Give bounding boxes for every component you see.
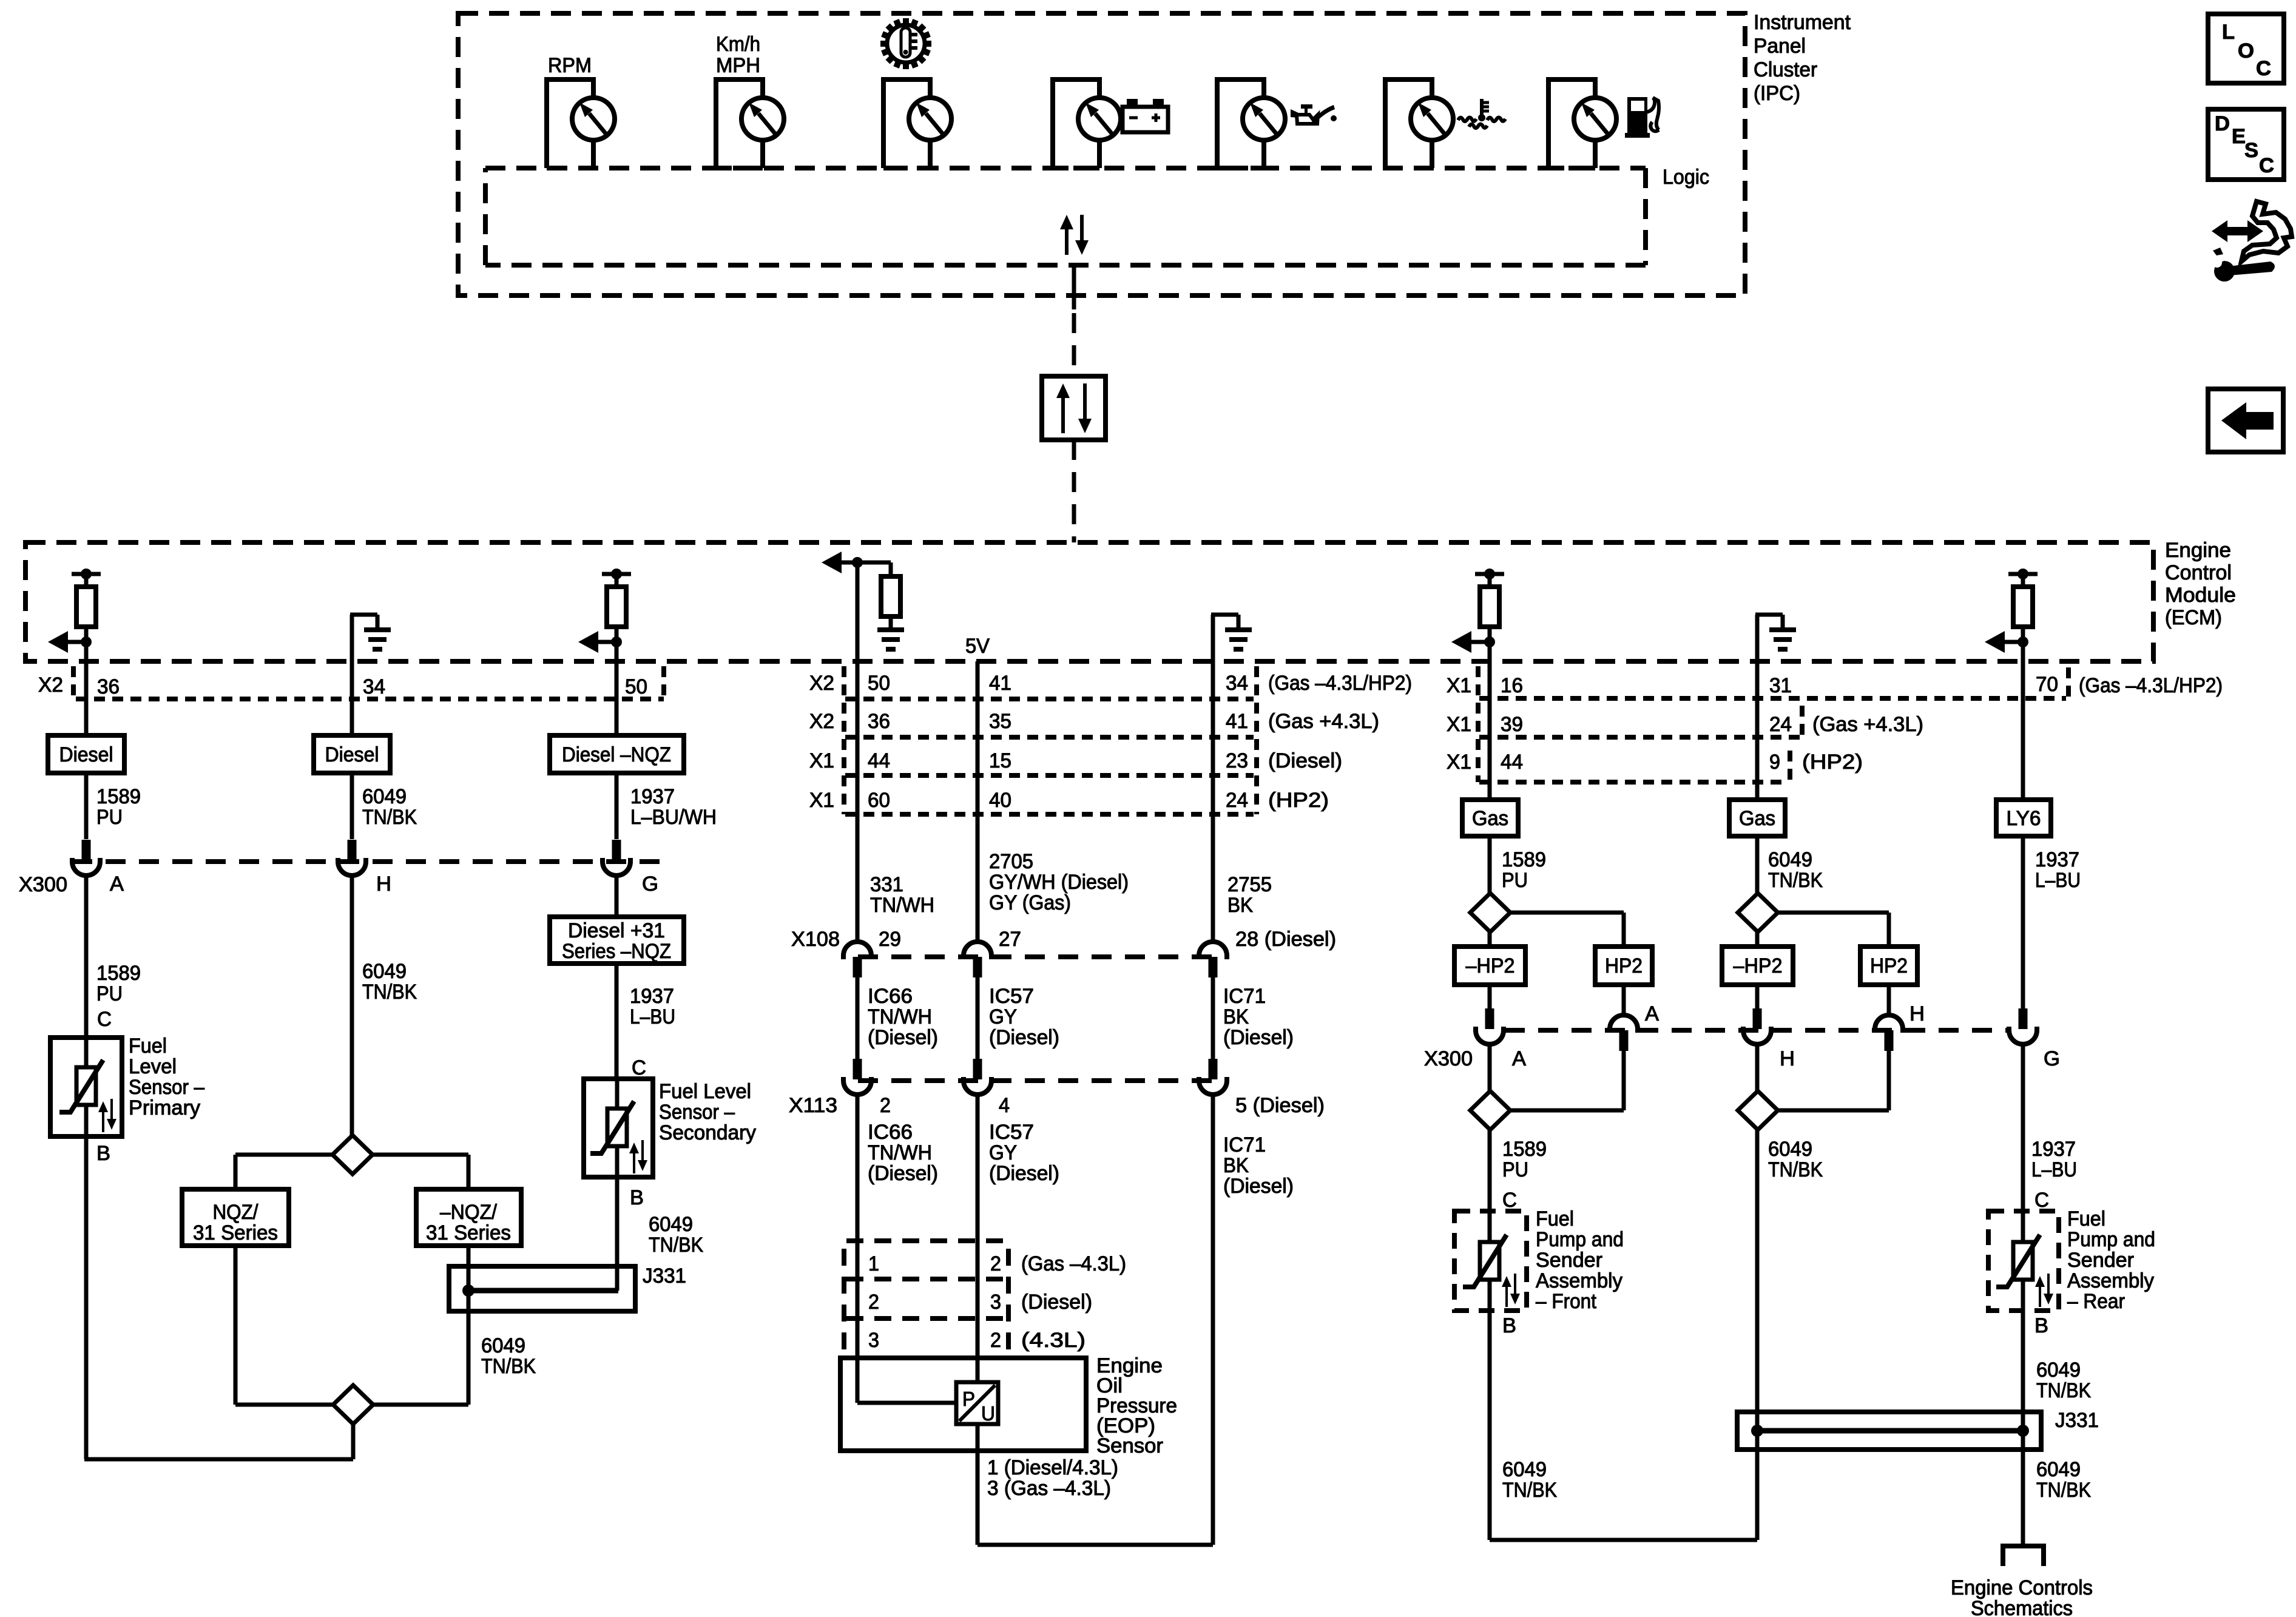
wire to NQZ/31 Series — [235, 1153, 333, 1157]
svg-text:16: 16 — [1501, 674, 1523, 697]
svg-text:6049: 6049 — [362, 785, 407, 808]
svg-text:50: 50 — [868, 672, 890, 695]
wire 1937 L-BU/WH (third column) — [615, 661, 619, 735]
svg-text:IC71: IC71 — [1223, 985, 1266, 1008]
svg-text:X2: X2 — [809, 672, 834, 695]
splice diamond HP2 merge front — [1470, 1091, 1510, 1130]
svg-text:3: 3 — [990, 1291, 1001, 1314]
wire 6049 TN/BK (right column 8) — [1755, 661, 1760, 800]
wire to HP2 option front — [1510, 911, 1624, 915]
option box HP2 front — [1595, 947, 1652, 985]
wire HP2 front below connector — [1622, 1051, 1626, 1110]
level arrows of fuel level sensor secondary — [633, 1151, 635, 1173]
wire 331 TN/WH (column 4) — [856, 661, 860, 942]
svg-text:5 (Diesel): 5 (Diesel) — [1235, 1094, 1325, 1117]
off-page connector to Engine Controls Schematics — [2003, 1546, 2044, 1566]
svg-text:23: 23 — [1226, 749, 1248, 772]
svg-text:GY (Gas): GY (Gas) — [989, 891, 1071, 914]
svg-text:Control: Control — [2165, 561, 2232, 584]
svg-text:(ECM): (ECM) — [2165, 606, 2222, 629]
connector X300 HP2 rear: socket over pin — [1875, 1015, 1903, 1033]
svg-text:X300: X300 — [1424, 1047, 1473, 1070]
svg-text:41: 41 — [989, 672, 1011, 695]
svg-text:44: 44 — [1501, 751, 1523, 774]
svg-text:36: 36 — [97, 675, 120, 698]
svg-text:Sensor –: Sensor – — [129, 1076, 204, 1099]
svg-text:1589: 1589 — [1502, 1138, 1547, 1161]
svg-text:2: 2 — [880, 1094, 891, 1117]
svg-text:Diesel +31: Diesel +31 — [568, 919, 665, 942]
wire 1937 to Diesel +31 Series -NQZ — [615, 876, 619, 917]
svg-text:40: 40 — [989, 789, 1011, 812]
svg-text:34: 34 — [1226, 672, 1248, 695]
svg-text:– Rear: – Rear — [2067, 1290, 2125, 1313]
variable resistor element of fuel level sensor primary — [76, 1067, 96, 1105]
svg-text:PU: PU — [1502, 1158, 1528, 1181]
variable resistor element of rear fuel sender — [2013, 1242, 2033, 1280]
svg-text:PU: PU — [96, 982, 123, 1005]
wire IC71 BK down right side of EOP — [1211, 1095, 1215, 1545]
svg-text:2705: 2705 — [989, 850, 1033, 873]
svg-text:1589: 1589 — [96, 785, 141, 808]
svg-text:Diesel: Diesel — [325, 743, 379, 766]
P/U pressure transducer — [956, 1382, 998, 1424]
ECM middle pin ladder X2/X1 rows — [842, 666, 846, 814]
level arrows of front fuel sender — [1505, 1284, 1508, 1307]
splice pack J331 (right) — [1737, 1412, 2041, 1450]
svg-text:H: H — [1780, 1047, 1795, 1070]
svg-text:(Diesel): (Diesel) — [989, 1162, 1059, 1185]
ground inside ECM on wire 6049 right — [1755, 615, 1760, 661]
svg-text:6049: 6049 — [362, 960, 407, 983]
connector row X300 (right) dashed line — [1505, 1028, 2008, 1033]
svg-text:X1: X1 — [809, 749, 834, 772]
svg-text:1: 1 — [868, 1252, 879, 1275]
svg-text:B: B — [96, 1142, 110, 1165]
svg-text:39: 39 — [1501, 713, 1523, 736]
wire 1937 L-BU (right column 9) — [2021, 661, 2025, 800]
svg-text:TN/WH: TN/WH — [868, 1141, 932, 1164]
svg-text:O: O — [2238, 39, 2254, 62]
svg-text:IC66: IC66 — [868, 1121, 913, 1144]
svg-text:Diesel: Diesel — [59, 743, 113, 766]
code box Diesel (left) — [48, 735, 124, 773]
svg-text:LY6: LY6 — [2007, 807, 2041, 830]
code box Gas (second) — [1729, 800, 1785, 836]
svg-text:41: 41 — [1226, 710, 1248, 733]
svg-text:IC66: IC66 — [868, 985, 913, 1008]
svg-text:60: 60 — [868, 789, 890, 812]
svg-text:L: L — [2222, 21, 2235, 44]
variable resistor element of fuel level sensor secondary — [607, 1109, 627, 1146]
svg-text:(IPC): (IPC) — [1754, 82, 1800, 105]
wire 2755 BK (column 6) — [1211, 661, 1215, 942]
svg-text:TN/BK: TN/BK — [1768, 869, 1823, 892]
svg-text:Km/h: Km/h — [716, 33, 760, 56]
ground inside ECM on wire 2755 — [1211, 615, 1215, 661]
code box Gas (first) — [1462, 800, 1518, 836]
svg-text:C: C — [2034, 1189, 2049, 1212]
svg-text:2: 2 — [990, 1329, 1001, 1352]
wire HP2 rear below connector — [1887, 1051, 1891, 1110]
connector row X300 (left) dashed line — [72, 859, 664, 864]
svg-text:15: 15 — [989, 749, 1011, 772]
option box -HP2 rear — [1722, 947, 1793, 985]
svg-text:70: 70 — [2036, 673, 2058, 696]
svg-text:(Gas –4.3L/HP2): (Gas –4.3L/HP2) — [2079, 674, 2223, 697]
EOP sensor pin option ladder — [842, 1249, 846, 1353]
svg-text:(Diesel): (Diesel) — [1223, 1026, 1294, 1049]
svg-text:5V: 5V — [965, 635, 990, 658]
svg-text:– Front: – Front — [1536, 1290, 1597, 1313]
level arrows of rear fuel sender — [2039, 1284, 2041, 1307]
svg-text:X2: X2 — [38, 673, 63, 697]
ECM output arrow on wire 1589 — [48, 631, 68, 653]
connector X300 pin G rear: pin over socket — [2019, 1008, 2028, 1029]
svg-text:–HP2: –HP2 — [1466, 954, 1515, 977]
DESC legend box — [2208, 109, 2284, 180]
svg-text:Engine Controls: Engine Controls — [1951, 1576, 2093, 1599]
gauge coolant temp gauge in IPC — [1385, 79, 1432, 168]
svg-text:Primary: Primary — [129, 1096, 200, 1119]
svg-text:Level: Level — [129, 1055, 177, 1078]
Engine Oil Pressure (EOP) Sensor box — [840, 1358, 1086, 1451]
svg-text:Pump and: Pump and — [1536, 1228, 1624, 1251]
svg-text:–NQZ/: –NQZ/ — [440, 1201, 498, 1224]
splice diamond HP2 split front — [1470, 893, 1510, 932]
wire front pump feed — [1488, 1130, 1492, 1211]
resistor inside ECM on wire 1589 — [72, 572, 101, 576]
wire 6049 middle to J331 — [1755, 1130, 1760, 1540]
svg-text:6049: 6049 — [1768, 848, 1812, 871]
wire IC57 GY between X108 and X113 — [976, 977, 980, 1061]
option box HP2 rear — [1860, 947, 1917, 985]
svg-text:1937: 1937 — [2035, 848, 2079, 871]
svg-text:TN/BK: TN/BK — [362, 806, 417, 829]
svg-text:44: 44 — [868, 749, 890, 772]
svg-text:TN/BK: TN/BK — [481, 1355, 536, 1378]
transmission temperature icon (gear with thermometer) — [880, 18, 931, 69]
svg-text:Sender: Sender — [1536, 1249, 1602, 1272]
wire 1589 PU (right column 7) — [1488, 661, 1492, 800]
connector X300 HP2 front: socket over pin — [1610, 1015, 1638, 1033]
svg-text:Sensor: Sensor — [1096, 1434, 1163, 1457]
svg-text:(HP2): (HP2) — [1268, 789, 1329, 812]
svg-text:C: C — [632, 1056, 646, 1079]
svg-text:X108: X108 — [791, 928, 840, 951]
svg-text:6049: 6049 — [481, 1334, 525, 1357]
resistor inside ECM on wire 1937 right — [2008, 572, 2038, 576]
wire IC57 GY to EOP sensor — [976, 1095, 980, 1384]
wire 1589 PU (left column) — [84, 661, 89, 735]
svg-text:Assembly: Assembly — [2067, 1269, 2154, 1292]
code box LY6 — [1996, 800, 2051, 836]
code box Diesel (second) — [314, 735, 390, 773]
svg-text:(Gas +4.3L): (Gas +4.3L) — [1812, 713, 1923, 736]
svg-text:TN/BK: TN/BK — [1768, 1158, 1823, 1181]
gauge transmission temp gauge in IPC — [883, 79, 930, 168]
svg-text:G: G — [2044, 1047, 2060, 1070]
EOP internal wire to P/U transducer — [856, 1358, 860, 1403]
splice pack J331 (left) — [449, 1266, 635, 1311]
wire 331 top arrow into ECM — [856, 562, 860, 661]
svg-text:2: 2 — [868, 1291, 879, 1314]
svg-text:X1: X1 — [1447, 674, 1471, 697]
svg-text:31 Series: 31 Series — [193, 1221, 278, 1244]
svg-text:X2: X2 — [809, 710, 834, 733]
svg-text:Logic: Logic — [1663, 166, 1709, 189]
connector X113 pin 4: pin over socket — [973, 1059, 982, 1079]
ECM output arrow on wire 1937 — [578, 631, 598, 653]
svg-text:C: C — [97, 1008, 112, 1031]
wire to HP2 option rear — [1778, 911, 1889, 915]
Fuel Pump and Sender Assembly - Rear dashed box — [1988, 1211, 2059, 1311]
level arrows of fuel level sensor primary — [102, 1110, 104, 1132]
connector X300 -HP2 front: pin over socket — [1485, 1008, 1494, 1029]
Fuel Pump and Sender Assembly - Front dashed box — [1454, 1211, 1527, 1311]
ECM output arrow on wire 1589 right — [1451, 631, 1471, 653]
svg-text:Series –NQZ: Series –NQZ — [562, 940, 671, 963]
svg-text:35: 35 — [989, 710, 1011, 733]
svg-text:Gas: Gas — [1472, 807, 1508, 830]
splice diamond NQZ merge — [333, 1385, 373, 1424]
svg-text:24: 24 — [1769, 713, 1792, 736]
svg-text:X1: X1 — [1447, 751, 1471, 774]
svg-text:34: 34 — [363, 675, 385, 698]
connector row X108 dashed line — [858, 954, 1226, 959]
svg-text:1589: 1589 — [96, 962, 141, 985]
serial data connector box with up/down arrows — [1042, 376, 1106, 440]
connector X108 pin 29: socket over pin — [843, 942, 871, 959]
wire NQZ branch down — [234, 1246, 238, 1405]
svg-text:BK: BK — [1227, 894, 1253, 917]
back arrow legend box — [2208, 389, 2283, 452]
svg-text:6049: 6049 — [1502, 1458, 1547, 1481]
svg-text:31 Series: 31 Series — [426, 1221, 511, 1244]
connector repair legend icon (wrench and terminal) — [2210, 201, 2292, 282]
option box -NQZ/31 Series — [416, 1189, 521, 1246]
IPC internal Logic dashed box — [485, 166, 1646, 170]
connector X108 pin 27: socket over pin — [964, 942, 991, 959]
option box NQZ/31 Series — [182, 1189, 289, 1246]
wire to -NQZ/31 Series — [373, 1153, 468, 1157]
wire IC66 TN/WH to EOP ladder — [856, 1095, 860, 1358]
svg-text:C: C — [2259, 154, 2274, 177]
connector row X113 dashed line — [858, 1078, 1226, 1083]
svg-text:Fuel: Fuel — [1536, 1207, 1574, 1230]
svg-text:GY/WH (Diesel): GY/WH (Diesel) — [989, 871, 1129, 894]
svg-text:Gas: Gas — [1739, 807, 1775, 830]
svg-text:X1: X1 — [1447, 713, 1471, 736]
svg-text:HP2: HP2 — [1870, 954, 1908, 977]
svg-text:9: 9 — [1769, 751, 1780, 774]
svg-text:Sensor –: Sensor – — [659, 1101, 735, 1124]
svg-text:S: S — [2244, 139, 2258, 162]
svg-text:6049: 6049 — [2036, 1458, 2081, 1481]
svg-text:4: 4 — [999, 1094, 1010, 1117]
connector X108 pin 28: socket over pin — [1199, 942, 1227, 959]
Engine Control Module (ECM) dashed module box — [25, 542, 2153, 661]
Fuel Level Sensor - Secondary box — [584, 1079, 653, 1177]
svg-text:NQZ/: NQZ/ — [213, 1201, 259, 1224]
bottom splice wire front-to-middle — [1490, 1538, 1757, 1542]
coolant temperature icon — [1458, 99, 1505, 128]
svg-text:(Gas –4.3L): (Gas –4.3L) — [1021, 1252, 1126, 1275]
gauge voltmeter in IPC — [1053, 79, 1099, 168]
wire 2705 GY (column 5, 5V reference) — [976, 661, 980, 942]
svg-text:(Diesel): (Diesel) — [1223, 1175, 1294, 1198]
svg-text:(Diesel): (Diesel) — [868, 1026, 938, 1049]
svg-text:1937: 1937 — [2031, 1138, 2076, 1161]
svg-text:L–BU: L–BU — [2031, 1158, 2077, 1181]
code box Diesel -NQZ — [550, 735, 684, 773]
svg-text:B: B — [1502, 1314, 1516, 1337]
wire 6049 to splice diamond — [350, 876, 354, 1135]
svg-text:IC57: IC57 — [989, 985, 1034, 1008]
svg-text:29: 29 — [879, 928, 901, 951]
wire 6049 TN/BK (second column) — [350, 661, 354, 735]
svg-text:TN/BK: TN/BK — [362, 981, 417, 1004]
pull-up resistor to ground on 331 wire — [857, 561, 891, 565]
svg-text:A: A — [1512, 1047, 1526, 1070]
svg-text:Panel: Panel — [1754, 35, 1806, 58]
svg-text:GY: GY — [989, 1141, 1017, 1164]
LOC legend box — [2208, 14, 2284, 83]
svg-text:E: E — [2232, 125, 2246, 148]
svg-text:3 (Gas –4.3L): 3 (Gas –4.3L) — [987, 1477, 1111, 1500]
splice diamond NQZ split — [333, 1135, 373, 1174]
ECM output arrow on wire 1937 right — [1985, 631, 2005, 653]
svg-text:BK: BK — [1223, 1154, 1249, 1177]
resistor inside ECM on wire 1937 — [602, 572, 631, 576]
svg-text:IC57: IC57 — [989, 1121, 1034, 1144]
svg-text:–HP2: –HP2 — [1734, 954, 1783, 977]
svg-text:U: U — [981, 1402, 995, 1425]
svg-text:Module: Module — [2165, 584, 2236, 607]
svg-text:PU: PU — [1502, 869, 1528, 892]
svg-text:Fuel: Fuel — [129, 1035, 167, 1058]
wire to Fuel Level Sensor Primary — [84, 876, 89, 1039]
svg-text:B: B — [2034, 1314, 2048, 1337]
Instrument Panel Cluster (IPC) dashed module box — [458, 13, 1745, 295]
svg-text:IC71: IC71 — [1223, 1133, 1266, 1156]
engine oil icon (oil can) — [1291, 104, 1337, 124]
svg-text:H: H — [376, 873, 391, 896]
svg-text:Pump and: Pump and — [2067, 1228, 2155, 1251]
wire splice to primary sensor B — [351, 1424, 356, 1459]
svg-text:31: 31 — [1769, 674, 1792, 697]
option box Diesel +31 Series -NQZ — [550, 917, 684, 964]
svg-text:C: C — [1502, 1189, 1517, 1212]
svg-text:Cluster: Cluster — [1754, 58, 1817, 81]
gauge oil pressure gauge in IPC — [1217, 79, 1264, 168]
svg-text:Instrument: Instrument — [1754, 11, 1851, 34]
svg-text:MPH: MPH — [716, 54, 760, 77]
svg-text:L–BU: L–BU — [2035, 869, 2081, 892]
svg-text:BK: BK — [1223, 1005, 1249, 1028]
svg-text:1589: 1589 — [1502, 848, 1546, 871]
ground inside ECM on wire 6049 left — [350, 615, 354, 661]
svg-text:36: 36 — [868, 710, 890, 733]
wire -NQZ branch through J331 — [467, 1246, 471, 1405]
svg-text:Fuel: Fuel — [2067, 1207, 2105, 1230]
connector X113 pin 2: pin over socket — [853, 1059, 862, 1079]
wire IC66 TN/WH between X108 and X113 — [856, 977, 860, 1061]
svg-text:G: G — [642, 873, 658, 896]
wire rear pump feed — [2021, 1044, 2025, 1211]
svg-text:28 (Diesel): 28 (Diesel) — [1235, 928, 1336, 951]
wire from IPC Logic to serial data connector — [1072, 265, 1076, 309]
svg-text:(4.3L): (4.3L) — [1021, 1329, 1086, 1352]
svg-text:PU: PU — [96, 806, 123, 829]
svg-text:GY: GY — [989, 1005, 1017, 1028]
svg-text:C: C — [2256, 57, 2271, 80]
svg-text:(Diesel): (Diesel) — [868, 1162, 938, 1185]
svg-text:HP2: HP2 — [1605, 954, 1643, 977]
svg-text:2755: 2755 — [1227, 873, 1272, 896]
svg-text:1937: 1937 — [630, 785, 675, 808]
svg-text:Fuel Level: Fuel Level — [659, 1080, 751, 1103]
svg-text:(Diesel): (Diesel) — [1268, 749, 1342, 772]
svg-text:(Gas –4.3L/HP2): (Gas –4.3L/HP2) — [1268, 672, 1412, 695]
variable resistor element of front fuel sender — [1480, 1242, 1499, 1280]
svg-text:(Gas +4.3L): (Gas +4.3L) — [1268, 710, 1379, 733]
wire IC71 BK between X108 and X113 — [1211, 977, 1215, 1061]
battery icon — [1123, 107, 1168, 132]
svg-text:TN/BK: TN/BK — [1502, 1479, 1557, 1502]
fuel pump icon — [1625, 97, 1659, 138]
svg-text:50: 50 — [625, 675, 647, 698]
splice diamond HP2 merge rear — [1738, 1091, 1778, 1130]
svg-text:J331: J331 — [643, 1264, 686, 1288]
svg-text:Diesel –NQZ: Diesel –NQZ — [562, 743, 671, 766]
svg-text:2: 2 — [990, 1252, 1001, 1275]
option box -HP2 front — [1454, 947, 1525, 985]
svg-text:6049: 6049 — [2036, 1359, 2081, 1382]
svg-text:TN/BK: TN/BK — [2036, 1379, 2091, 1402]
svg-text:331: 331 — [870, 873, 903, 896]
svg-text:1 (Diesel/4.3L): 1 (Diesel/4.3L) — [987, 1456, 1118, 1479]
svg-text:TN/WH: TN/WH — [868, 1005, 932, 1028]
connector X300 pin H: pin over socket — [348, 840, 357, 860]
svg-text:(Diesel): (Diesel) — [989, 1026, 1059, 1049]
IPC serial data up/down arrows — [1065, 227, 1069, 255]
svg-text:Secondary: Secondary — [659, 1121, 756, 1144]
svg-text:27: 27 — [999, 928, 1021, 951]
EOP output wire — [976, 1424, 980, 1545]
ECM right pin ladder X1 rows — [1476, 666, 1481, 782]
svg-text:L–BU: L–BU — [630, 1005, 675, 1028]
svg-text:6049: 6049 — [1768, 1138, 1812, 1161]
svg-text:Schematics: Schematics — [1971, 1597, 2073, 1617]
resistor inside ECM on wire 1589 right — [1475, 572, 1504, 576]
svg-text:P: P — [962, 1388, 975, 1410]
connector X300 pin A: pin over socket — [82, 840, 91, 860]
svg-text:Assembly: Assembly — [1536, 1269, 1622, 1292]
svg-text:A: A — [110, 873, 124, 896]
svg-text:Sender: Sender — [2067, 1249, 2134, 1272]
gauge fuel gauge in IPC — [1548, 79, 1595, 168]
svg-text:3: 3 — [868, 1329, 879, 1352]
svg-text:TN/BK: TN/BK — [2036, 1479, 2091, 1502]
svg-text:B: B — [630, 1186, 644, 1209]
gauge speedometer in IPC — [716, 79, 763, 168]
svg-text:TN/BK: TN/BK — [649, 1234, 703, 1257]
svg-text:24: 24 — [1226, 789, 1248, 812]
gauge tachometer RPM in IPC — [547, 79, 593, 168]
svg-text:H: H — [1909, 1002, 1925, 1025]
splice diamond HP2 split rear — [1738, 893, 1778, 932]
